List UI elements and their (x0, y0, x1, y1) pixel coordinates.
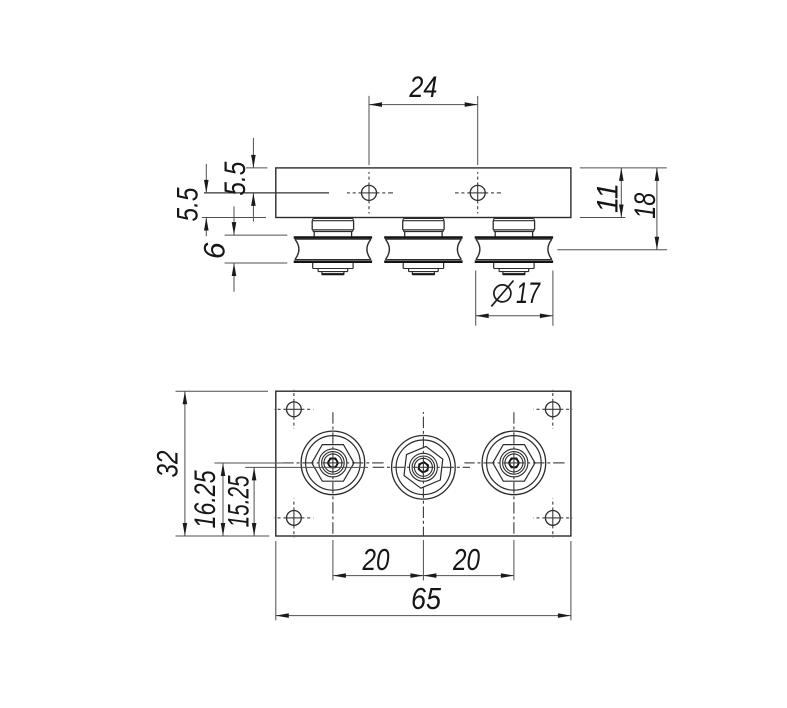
svg-text:20: 20 (362, 542, 390, 577)
svg-text:5.5: 5.5 (219, 161, 252, 195)
svg-text:16.25: 16.25 (189, 470, 222, 528)
svg-text:15.25: 15.25 (222, 475, 255, 527)
svg-text:11: 11 (592, 183, 625, 213)
svg-text:20: 20 (452, 542, 480, 577)
svg-text:17: 17 (516, 277, 541, 310)
svg-text:18: 18 (629, 193, 662, 219)
svg-text:65: 65 (411, 581, 442, 616)
svg-text:24: 24 (409, 71, 438, 104)
svg-text:32: 32 (152, 450, 185, 477)
svg-text:6: 6 (198, 242, 231, 259)
svg-text:5.5: 5.5 (171, 187, 204, 221)
